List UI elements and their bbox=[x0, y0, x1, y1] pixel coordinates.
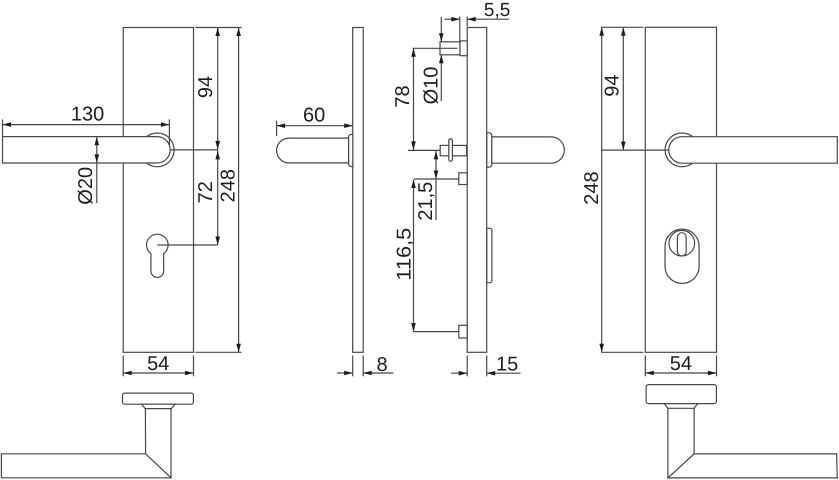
svg-text:21,5: 21,5 bbox=[415, 182, 437, 221]
view1 leader line from rose center to dim line bbox=[170, 149, 217, 151]
view1 perspective rose disk bbox=[123, 393, 194, 404]
svg-text:54: 54 bbox=[147, 353, 169, 375]
svg-text:94: 94 bbox=[195, 76, 217, 98]
view1 leader line from keyhole center to dim line bbox=[157, 244, 217, 246]
dim 15 - dimension lines with outside arrows bbox=[451, 372, 467, 374]
svg-text:5,5: 5,5 bbox=[484, 0, 510, 21]
view3 bottom fixing boss bbox=[459, 325, 467, 338]
view3 handle grip side view (exterior) bbox=[492, 137, 565, 163]
svg-text:Ø20: Ø20 bbox=[75, 167, 97, 205]
svg-text:248: 248 bbox=[218, 169, 240, 202]
dim 130 dimension line with arrows bbox=[3, 124, 170, 126]
view3 spindle leader line bbox=[408, 149, 440, 151]
svg-text:248: 248 bbox=[581, 171, 603, 204]
svg-text:54: 54 bbox=[670, 353, 692, 375]
view4 top edge extension line bbox=[601, 26, 643, 28]
dim 130 handle length - extension lines bbox=[2, 120, 4, 137]
dim 72 vertical dimension line view1 bbox=[217, 150, 219, 245]
view1 perspective handle neck left line bbox=[144, 409, 146, 454]
svg-text:94: 94 bbox=[602, 74, 624, 96]
dim 60 - extension line bbox=[276, 121, 278, 136]
view3 handle neck (exterior) bbox=[487, 133, 492, 167]
dim 54 view4 - extension lines bbox=[644, 356, 646, 377]
view3 top fixing boss bbox=[459, 173, 467, 185]
view3 square spindle bbox=[440, 145, 466, 155]
dim 94 vertical dimension line view1 bbox=[217, 28, 219, 150]
dim Ø10 - lower line with up arrow bbox=[440, 55, 442, 101]
dim 21,5 dimension line with arrows bbox=[435, 150, 437, 220]
svg-text:78: 78 bbox=[392, 85, 414, 107]
view1 bottom edge extension line bbox=[196, 351, 242, 353]
svg-text:Ø10: Ø10 bbox=[421, 67, 443, 105]
dim 54 view4 - dimension line with arrows bbox=[645, 372, 716, 374]
dim 54 view1 - dimension line with arrows bbox=[123, 372, 193, 374]
dim 116,5 dimension line with arrows bbox=[413, 180, 415, 332]
svg-text:60: 60 bbox=[303, 104, 325, 126]
dim Ø20 handle diameter - line and arrows bbox=[96, 137, 98, 203]
view4 security backplate (front, exterior side) 54x248 bbox=[645, 27, 716, 352]
view1 lever handle bar (front view) bbox=[3, 137, 171, 163]
view4 lever handle bar (front view) bbox=[669, 137, 838, 164]
view3 screw axis leader line bbox=[413, 47, 458, 49]
view3 security backplate side view (15mm) bbox=[467, 28, 487, 353]
view4 handle rose circle bbox=[665, 133, 699, 167]
view4 perspective grip bar bbox=[668, 454, 837, 478]
view3 bottom fixing boss leader line bbox=[414, 331, 459, 333]
view4 leader line from dims to rose bbox=[602, 149, 669, 151]
view4 perspective handle neck right line bbox=[693, 408, 695, 454]
svg-text:116,5: 116,5 bbox=[394, 228, 416, 281]
svg-text:72: 72 bbox=[195, 181, 217, 203]
view1 perspective handle neck right line bbox=[170, 409, 172, 478]
dim 54 view1 - extension lines bbox=[122, 356, 124, 377]
dim 8 - dimension lines with outside arrows bbox=[337, 372, 353, 374]
view1 perspective grip bar bbox=[1, 454, 171, 478]
dim 8 - extension lines bbox=[352, 356, 354, 377]
svg-text:8: 8 bbox=[376, 354, 387, 376]
dim 60 dimension line with arrows bbox=[277, 125, 353, 127]
dim 248 vertical dimension line view1 bbox=[238, 28, 240, 353]
view2 backplate side view (8mm) bbox=[353, 28, 364, 353]
view4 perspective neck collar trapezoid bbox=[664, 404, 697, 409]
dim 5,5 - dimension lines with outside arrows bbox=[445, 18, 460, 20]
view3 top fixing boss leader line bbox=[414, 178, 459, 180]
dim 78 dimension line with arrows bbox=[413, 48, 415, 150]
svg-text:15: 15 bbox=[496, 353, 518, 375]
dim Ø10 - upper line with down arrow bbox=[440, 17, 442, 42]
view3 cylinder protection strip side view bbox=[487, 228, 492, 282]
view3 fixing screw shaft top bbox=[440, 42, 460, 55]
view1 perspective neck collar trapezoid bbox=[142, 404, 175, 408]
view4 cylinder protection oval bbox=[665, 229, 699, 283]
view1 handle rose circle bbox=[140, 133, 174, 167]
view1 backplate (front, interior side) 54x248 bbox=[123, 28, 193, 353]
view3 spindle washer bbox=[449, 139, 453, 161]
view2 handle grip side view bbox=[277, 138, 349, 163]
view4 cylinder core cover circle bbox=[669, 230, 695, 256]
view4 perspective rose disk (security, thick) bbox=[646, 385, 716, 404]
dim 15 - extension lines bbox=[466, 356, 468, 377]
view1 euro profile cylinder keyhole bbox=[147, 234, 169, 277]
svg-text:130: 130 bbox=[71, 104, 104, 126]
dim 248 vertical dimension line view4 bbox=[601, 27, 603, 352]
view4 bottom edge extension line bbox=[601, 351, 643, 353]
view1 top edge extension line bbox=[196, 27, 242, 29]
dim 94 vertical dimension line view4 bbox=[622, 27, 624, 150]
dim 5,5 - extension lines bbox=[459, 17, 461, 44]
view3 fixing screw collar top bbox=[460, 41, 467, 56]
view4 perspective handle neck left line bbox=[667, 408, 669, 478]
view4 cylinder slot bbox=[677, 233, 686, 256]
view2 handle neck bbox=[349, 134, 353, 166]
